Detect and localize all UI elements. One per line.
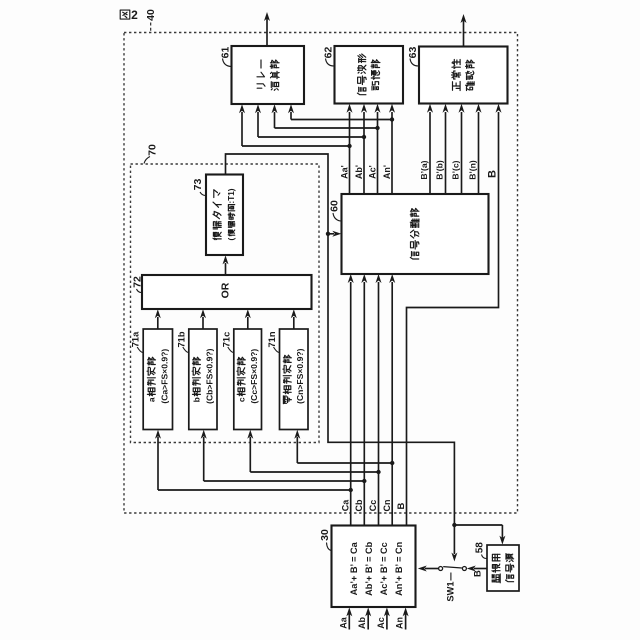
svg-text:63: 63 (407, 47, 419, 59)
svg-text:(Cn>FS×0.9?): (Cn>FS×0.9?) (295, 348, 305, 404)
junction dot Cn branch (390, 461, 394, 465)
wire B'(b) : signal separation 60 to normality confirmation 63 (443, 104, 449, 194)
svg-text:B: B (473, 570, 484, 577)
junction dot Cc branch (376, 470, 380, 474)
wire: output of relay operation unit 61 (exits diagram top) (264, 12, 270, 46)
wire input Aa into adder 30 (346, 607, 352, 629)
label Cb (354, 499, 364, 511)
svg-text:Ac’+ B’ = Cc: Ac’+ B’ = Cc (379, 542, 389, 595)
label 73 with leader (192, 179, 206, 196)
junction dot An' branch (390, 117, 394, 121)
wire branch of An' to relay operation 61 (288, 104, 392, 119)
label Aa (338, 616, 348, 628)
wire input Ac into adder 30 (384, 607, 390, 629)
svg-text:71a: 71a (131, 331, 141, 347)
label Ac' (367, 165, 377, 179)
label 62 with leader (322, 47, 334, 66)
svg-text:Cb: Cb (354, 499, 364, 511)
svg-text:B’(b): B’(b) (435, 160, 445, 180)
label Cn (382, 500, 392, 512)
junction dot Aa' branch (347, 144, 351, 148)
junction dot Ac' branch (375, 126, 379, 130)
svg-text:61: 61 (219, 47, 231, 59)
svg-text:(Cc>FS×0.9?): (Cc>FS×0.9?) (249, 349, 259, 404)
label 72 with leader (132, 276, 144, 292)
svg-text:An’+ B’ = Cn: An’+ B’ = Cn (394, 541, 404, 596)
label B (above adder 30) (396, 502, 407, 509)
svg-text:b: b (192, 397, 202, 402)
svg-text:An: An (395, 617, 405, 629)
wire branch Cc to phase determination unit (247, 430, 378, 472)
wire branch of Aa' to relay operation 61 (239, 104, 350, 146)
wire B'(c) : signal separation 60 to normality confirmation 63 (459, 104, 465, 194)
wire phase determination 71n to OR 72 (291, 309, 297, 329)
wire phase determination 71a to OR 72 (155, 309, 161, 329)
svg-text:70: 70 (147, 144, 159, 156)
wire Ca : adder 30 up to signal separation 60 (348, 274, 354, 526)
op box 62 signal waveform memory 信号波形記憶部 (335, 46, 404, 104)
op box 61 relay operation unit リレー演算部 (232, 46, 305, 104)
label Ac (376, 617, 386, 629)
wire B'(a) : signal separation 60 to normality confirmation 63 (427, 104, 433, 194)
label B'(n) (468, 160, 478, 180)
svg-text:71c: 71c (221, 332, 231, 348)
wire phase determination 71c to OR 72 (245, 309, 251, 329)
label Ab (357, 617, 367, 629)
svg-text:B’(c): B’(c) (451, 160, 461, 179)
wire branch of Ac' to relay operation 61 (272, 104, 378, 128)
svg-text:(Ca>FS×0.9?): (Ca>FS×0.9?) (159, 349, 169, 404)
wire Cb : adder 30 up to signal separation 60 (361, 274, 367, 526)
wire branch Ca to phase determination unit (155, 430, 351, 490)
svg-text:B: B (396, 502, 407, 509)
wire phase determination 71b to OR 72 (200, 309, 206, 329)
svg-text:B’(a): B’(a) (419, 160, 429, 179)
label Cc (368, 500, 378, 512)
op box 60 signal separation unit 信号分離部 (342, 194, 489, 274)
wire branch Cn to phase determination unit (294, 430, 392, 463)
svg-text:40: 40 (145, 9, 157, 21)
svg-text:2: 2 (131, 8, 138, 22)
svg-text:72: 72 (132, 276, 144, 288)
label Ca (340, 499, 350, 511)
svg-text:(: ( (227, 237, 236, 240)
op box 58 monitoring signal source 監視用信号源 (487, 545, 519, 591)
svg-text::T1): :T1) (227, 188, 236, 203)
svg-text:SW1: SW1 (445, 581, 455, 601)
op box 72 OR gate (142, 275, 312, 309)
svg-text:(Cb>FS×0.9?): (Cb>FS×0.9?) (204, 348, 214, 404)
label B'(a) (419, 160, 429, 179)
label 60 with leader (328, 200, 340, 221)
wire An' : signal separation 60 to waveform memory 62 (389, 104, 395, 194)
svg-text:Ab: Ab (357, 617, 367, 629)
wire timer 73 output to signal separation 60 (226, 154, 342, 237)
svg-text:B: B (486, 170, 498, 178)
svg-text:73: 73 (192, 179, 204, 191)
junction dot Ab' branch (362, 135, 366, 139)
op box 71b phase determination unit b相判定部（Cb＞FS×0.9？） (189, 329, 217, 430)
wire Cc : adder 30 up to signal separation 60 (376, 274, 382, 526)
svg-text:62: 62 (322, 47, 334, 59)
label Ab' (354, 165, 364, 179)
wire OR 72 to restoration timer 73 (223, 255, 229, 275)
wire Cn : adder 30 up to signal separation 60 (389, 274, 395, 526)
op box 71c phase determination unit c相判定部（Cc＞FS×0.9？） (234, 329, 262, 430)
label An' (382, 165, 392, 179)
wire input Ab into adder 30 (365, 607, 371, 629)
wire B : bypass from adder 30 around signal separation 60 up to 63 (407, 104, 502, 526)
svg-text:30: 30 (319, 529, 331, 541)
wire switch SW1 to adder 30 (418, 566, 439, 572)
wire Ac' : signal separation 60 to waveform memory 62 (375, 104, 381, 194)
label 71a with leader (131, 331, 143, 353)
svg-text:Ac: Ac (376, 617, 386, 629)
label B'(c) (451, 160, 461, 179)
junction dot timer output (326, 232, 330, 236)
label 70 with leader (144, 144, 159, 163)
junction dot to signal source branch (452, 523, 456, 527)
wire monitoring signal source 58 to switch SW1 (467, 566, 487, 572)
label 71b with leader (176, 331, 188, 352)
wire branch of Ab' to relay operation 61 (255, 104, 364, 137)
wire B'(n) : signal separation 60 to normality confirmation 63 (476, 104, 482, 194)
svg-text:B’(n): B’(n) (468, 160, 478, 180)
junction dot Ca branch (349, 488, 353, 492)
label 63 with leader (407, 47, 419, 66)
label 40 with dashed leader (145, 9, 157, 31)
op box 71a phase determination unit a相判定部（Ca＞FS×0.9？） (143, 329, 172, 430)
svg-text:Ac': Ac' (367, 165, 377, 179)
wire Aa' : signal separation 60 to waveform memory 62 (347, 104, 353, 194)
label B (upper) (486, 170, 498, 178)
svg-text:71n: 71n (267, 331, 277, 347)
label 71c with leader (221, 332, 233, 353)
svg-text:c: c (236, 397, 246, 402)
label 61 with leader (219, 47, 231, 67)
op box 73 restoration timer 復帰タイマ（復帰時間:T1） (206, 175, 243, 256)
label 71n with leader (267, 331, 279, 352)
switch SW1 contacts and lever (439, 567, 467, 571)
label SW1 with leader (445, 573, 455, 602)
label 58 with leader (475, 542, 487, 559)
label B'(b) (435, 160, 445, 180)
label 30 with leader (319, 529, 331, 550)
wire branch Cb to phase determination unit (201, 430, 365, 481)
svg-text:Aa’+ B’ = Ca: Aa’+ B’ = Ca (349, 541, 359, 595)
svg-text:Aa: Aa (338, 616, 348, 628)
svg-text:a: a (147, 397, 157, 402)
wire Ab' : signal separation 60 to waveform memory 62 (361, 104, 367, 194)
junction dot Cb branch (362, 479, 366, 483)
svg-text:Ab': Ab' (354, 165, 364, 179)
svg-text:Ab’+ B’ = Cb: Ab’+ B’ = Cb (364, 541, 374, 596)
svg-text:Cc: Cc (368, 500, 378, 512)
wire branch to monitoring signal source 58 (454, 525, 505, 545)
op box 71n phase determination unit 零相判定部（Cn＞FS×0.9？） (280, 329, 309, 430)
op box 63 normality confirmation 正常性確認部 (419, 47, 508, 104)
svg-text:An': An' (382, 165, 392, 179)
label An (395, 617, 405, 629)
figure label 図2 (120, 8, 138, 22)
wire: output of normality confirmation unit 63 (exits diagram top) (461, 14, 467, 47)
svg-text:60: 60 (328, 200, 340, 212)
svg-text:Ca: Ca (340, 499, 350, 511)
wire input An into adder 30 (403, 607, 409, 629)
wire timer output down to switch SW1 (328, 234, 457, 562)
dashed box 70 (determination section) (131, 164, 320, 443)
svg-text:OR: OR (220, 282, 232, 298)
svg-text:Aa': Aa' (339, 165, 349, 179)
svg-text:Cn: Cn (382, 500, 392, 512)
dashed box 40 (relay device) (124, 33, 518, 514)
op box 30 adder (superimposes monitoring signal) (332, 526, 416, 608)
label B (at signal source output) (473, 570, 484, 577)
label Aa' (339, 165, 349, 179)
svg-text:71b: 71b (176, 331, 186, 347)
svg-text:58: 58 (475, 542, 486, 554)
